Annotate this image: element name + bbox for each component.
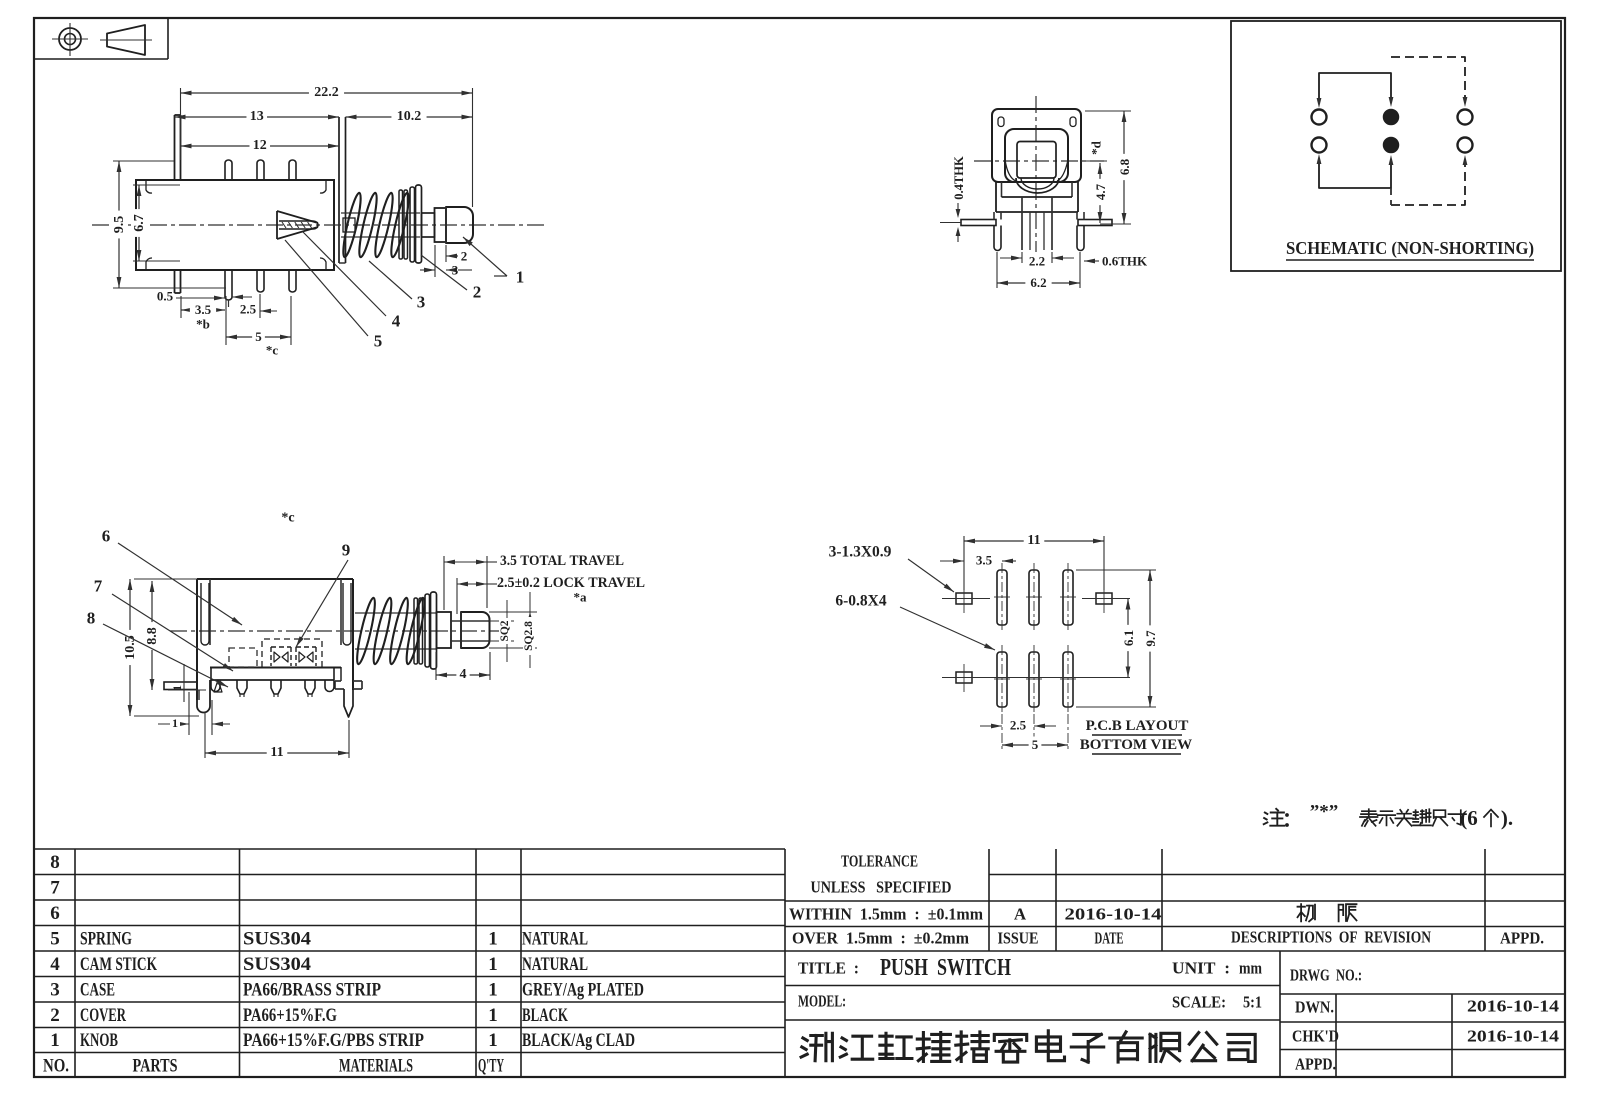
svg-text:CASE: CASE [80, 979, 115, 1000]
svg-text:4: 4 [392, 312, 401, 331]
svg-text:2.5: 2.5 [1010, 718, 1027, 733]
svg-text:6.7: 6.7 [132, 214, 147, 232]
svg-text:”*”: ”*” [1310, 802, 1339, 823]
svg-text:6: 6 [50, 903, 60, 924]
svg-text:2: 2 [473, 283, 482, 302]
svg-text:6.8: 6.8 [1117, 158, 1132, 175]
svg-text:BLACK/Ag CLAD: BLACK/Ag CLAD [522, 1030, 635, 1051]
svg-text:8.8: 8.8 [145, 627, 160, 645]
svg-text:SCALE:: SCALE: [1172, 993, 1226, 1012]
svg-text:SUS304: SUS304 [243, 954, 312, 975]
svg-text:PA66/BRASS STRIP: PA66/BRASS STRIP [243, 979, 381, 1000]
svg-text:TITLE :: TITLE : [798, 959, 859, 978]
svg-text:PA66+15%F.G/PBS STRIP: PA66+15%F.G/PBS STRIP [243, 1030, 424, 1051]
svg-text:UNIT :: UNIT : [1172, 959, 1230, 978]
svg-text:P.C.B LAYOUT: P.C.B LAYOUT [1086, 718, 1189, 734]
svg-text:8: 8 [50, 852, 60, 873]
svg-text:3: 3 [50, 979, 60, 1000]
svg-text:UNLESS SPECIFIED: UNLESS SPECIFIED [811, 878, 952, 897]
svg-text:2016-10-14: 2016-10-14 [1467, 1027, 1560, 1046]
svg-text:*d: *d [1089, 140, 1104, 155]
svg-text:CAM STICK: CAM STICK [80, 954, 157, 975]
svg-text:5: 5 [374, 332, 383, 351]
svg-text:*b: *b [196, 317, 210, 332]
svg-text:KNOB: KNOB [80, 1030, 118, 1051]
svg-text:3-1.3X0.9: 3-1.3X0.9 [829, 544, 892, 561]
svg-text:3.5 TOTAL TRAVEL: 3.5 TOTAL TRAVEL [500, 553, 624, 569]
svg-text:13: 13 [250, 109, 264, 124]
svg-text:2: 2 [50, 1005, 60, 1026]
svg-text:6.1: 6.1 [1121, 630, 1136, 646]
svg-text:*c: *c [266, 343, 279, 358]
svg-text:*c: *c [281, 511, 294, 526]
svg-text:3.5: 3.5 [195, 302, 212, 317]
svg-text:9.5: 9.5 [112, 216, 127, 234]
svg-text:2.2: 2.2 [1029, 254, 1045, 269]
svg-text:9: 9 [342, 541, 351, 560]
svg-text:1: 1 [488, 954, 498, 975]
svg-text:2.5±0.2 LOCK TRAVEL: 2.5±0.2 LOCK TRAVEL [497, 575, 645, 591]
svg-text:1: 1 [488, 1005, 498, 1026]
svg-text:：: ： [1282, 809, 1302, 831]
svg-text:SQ2: SQ2 [499, 620, 511, 641]
svg-text:1: 1 [488, 979, 498, 1000]
svg-text:6.2: 6.2 [1030, 275, 1046, 290]
svg-text:0.6THK: 0.6THK [1102, 254, 1148, 269]
svg-text:DWN.: DWN. [1295, 998, 1334, 1017]
svg-text:CHK'D: CHK'D [1292, 1027, 1339, 1046]
svg-text:11: 11 [1027, 533, 1040, 548]
svg-text:1: 1 [516, 268, 525, 287]
svg-text:5: 5 [255, 329, 262, 344]
svg-text:(6: (6 [1460, 806, 1478, 830]
svg-text:0.5: 0.5 [157, 289, 174, 304]
svg-text:ISSUE: ISSUE [998, 929, 1039, 948]
svg-text:PA66+15%F.G: PA66+15%F.G [243, 1005, 337, 1026]
svg-text:SCHEMATIC (NON-SHORTING): SCHEMATIC (NON-SHORTING) [1286, 238, 1534, 259]
svg-text:NATURAL: NATURAL [522, 954, 588, 975]
svg-text:9.7: 9.7 [1143, 630, 1158, 647]
svg-text:2016-10-14: 2016-10-14 [1065, 905, 1163, 924]
svg-text:5: 5 [1032, 737, 1039, 752]
svg-text:1: 1 [488, 928, 498, 949]
svg-text:WITHIN 1.5mm : ±0.1mm: WITHIN 1.5mm : ±0.1mm [789, 905, 983, 924]
svg-text:NO.: NO. [43, 1055, 69, 1076]
svg-text:5: 5 [50, 928, 60, 949]
svg-text:4: 4 [50, 954, 60, 975]
svg-text:PARTS: PARTS [133, 1055, 178, 1076]
svg-text:6: 6 [102, 527, 111, 546]
svg-text:APPD.: APPD. [1295, 1055, 1336, 1074]
svg-text:Q'TY: Q'TY [478, 1055, 504, 1076]
svg-text:10.5: 10.5 [123, 635, 138, 660]
svg-text:2016-10-14: 2016-10-14 [1467, 997, 1560, 1016]
svg-text:APPD.: APPD. [1500, 929, 1544, 948]
svg-text:OVER 1.5mm : ±0.2mm: OVER 1.5mm : ±0.2mm [792, 929, 969, 948]
svg-text:5:1: 5:1 [1243, 993, 1262, 1012]
svg-text:NATURAL: NATURAL [522, 928, 588, 949]
svg-text:12: 12 [253, 138, 267, 153]
svg-text:BOTTOM VIEW: BOTTOM VIEW [1080, 737, 1192, 753]
svg-text:4: 4 [460, 667, 467, 682]
svg-text:SQ2.8: SQ2.8 [523, 621, 535, 651]
svg-text:3: 3 [417, 293, 426, 312]
svg-text:DATE: DATE [1095, 929, 1124, 948]
svg-text:1: 1 [50, 1030, 60, 1051]
svg-text:7: 7 [94, 577, 103, 596]
svg-text:11: 11 [270, 745, 283, 760]
svg-text:BLACK: BLACK [522, 1005, 568, 1026]
svg-text:8: 8 [87, 609, 96, 628]
svg-text:GREY/Ag PLATED: GREY/Ag PLATED [522, 979, 644, 1000]
svg-text:COVER: COVER [80, 1005, 126, 1026]
svg-text:TOLERANCE: TOLERANCE [841, 852, 918, 871]
svg-text:10.2: 10.2 [397, 109, 422, 124]
svg-text:2: 2 [461, 249, 468, 264]
svg-text:3: 3 [452, 263, 459, 278]
svg-text:4.7: 4.7 [1093, 183, 1108, 200]
svg-text:1: 1 [488, 1030, 498, 1051]
svg-text:7: 7 [50, 877, 60, 898]
svg-text:DRWG NO.:: DRWG NO.: [1290, 966, 1362, 985]
svg-text:SUS304: SUS304 [243, 928, 312, 949]
svg-text:A: A [1014, 905, 1027, 924]
svg-text:PUSH SWITCH: PUSH SWITCH [880, 955, 1011, 981]
svg-text:3.5: 3.5 [976, 553, 993, 568]
svg-text:mm: mm [1239, 959, 1262, 978]
svg-text:1: 1 [172, 716, 178, 730]
svg-text:SPRING: SPRING [80, 928, 132, 949]
svg-text:DESCRIPTIONS OF REVISION: DESCRIPTIONS OF REVISION [1231, 928, 1432, 947]
svg-text:MODEL:: MODEL: [798, 992, 846, 1011]
svg-text:2.5: 2.5 [240, 302, 257, 317]
svg-text:22.2: 22.2 [314, 85, 339, 100]
svg-text:0.4THK: 0.4THK [952, 156, 966, 200]
svg-text:MATERIALS: MATERIALS [339, 1055, 413, 1076]
svg-text:).: ). [1501, 806, 1513, 830]
svg-text:*a: *a [574, 590, 588, 605]
svg-text:6-0.8X4: 6-0.8X4 [835, 593, 886, 610]
svg-text:1: 1 [170, 685, 184, 691]
